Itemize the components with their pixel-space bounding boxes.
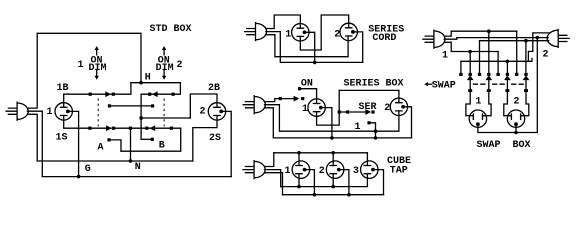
wire plug ground to ground bus [264, 173, 282, 195]
wire plug hot to outlet 1 top [266, 15, 301, 29]
node dot hot col4 [487, 29, 491, 33]
wire outlet1 bottom to series riser [317, 90, 340, 125]
SECTION: STD BOX [6, 24, 231, 178]
outlet J2 [507, 110, 524, 127]
wire bottom bus [281, 174, 368, 187]
outlet J2 [326, 161, 344, 179]
node junction dot on ground bus [374, 136, 378, 140]
plug pin arrow col2 [467, 75, 474, 80]
contact arrow row B2 [150, 125, 156, 131]
node N junction dot [129, 159, 133, 163]
wire neutral bus [265, 105, 399, 132]
wire 2B up-over to outlet 2 [190, 94, 217, 118]
node G junction dot [77, 175, 81, 179]
plug pin arrow col8 [523, 75, 530, 80]
wire column 8 [525, 41, 527, 73]
arrow up (switch 2) [163, 50, 165, 55]
node dot top bus outlet1 [297, 151, 301, 155]
contact arrow switch1 [294, 96, 300, 102]
wire column 3 [479, 41, 481, 73]
wire crossover with terminal squares [110, 105, 153, 107]
wire column 6 [506, 61, 508, 73]
outlet J1 [55, 103, 72, 120]
AC plug P5 left [423, 30, 445, 48]
wire switch2 row A [141, 83, 180, 140]
wire outlet1 pin down [305, 170, 315, 195]
node junction square switch2 feed [338, 110, 341, 113]
node dot bottom bus outlet1 [297, 185, 301, 189]
wire top bus [274, 153, 368, 166]
svg-text:1: 1 [475, 97, 481, 108]
wire outlet1 pin to ground bus [321, 108, 332, 138]
node junction dot pin1 ground [330, 136, 334, 140]
wire plug hot to top bus [264, 153, 273, 167]
svg-text:2: 2 [384, 103, 390, 114]
wire switch 2 row [339, 111, 365, 113]
wire col8 down to outlet2 [521, 80, 529, 116]
svg-text:B: B [159, 141, 165, 152]
wire 2B tap line [141, 117, 190, 119]
svg-text:N: N [135, 162, 141, 173]
wire hot from plug to H drop [27, 33, 141, 108]
node dot top bus outlet2 [331, 151, 335, 155]
wire column 4 [488, 31, 490, 73]
svg-text:1: 1 [302, 104, 308, 115]
svg-text:ON: ON [301, 78, 313, 89]
svg-text:G: G [85, 164, 91, 175]
plug pin arrow col4 [485, 75, 492, 80]
jack square col4 [487, 73, 490, 76]
switch linkage dashed 2 [163, 98, 165, 126]
AC plug P2 [245, 23, 267, 41]
wire plug hot to switch 1 [265, 99, 297, 102]
node dot ground outlet1 [313, 193, 317, 197]
wire N bus [27, 114, 192, 161]
plug pin arrow col6 [504, 75, 511, 80]
wire col6 down to outlet2 [504, 80, 512, 116]
wire column 7 [516, 31, 518, 73]
svg-text:2B: 2B [208, 83, 220, 94]
svg-text:2: 2 [543, 50, 549, 61]
wire terminal A to link [109, 140, 121, 151]
outlet J2 [340, 23, 357, 40]
wire plug neutral to bottom bus [264, 170, 280, 187]
svg-text:3: 3 [353, 166, 359, 177]
svg-text:1: 1 [442, 51, 448, 62]
outlet J1 [308, 99, 325, 116]
svg-text:1: 1 [78, 60, 84, 71]
node dot bottom bus outlet2 [331, 185, 335, 189]
contact square switch2 blade end [371, 110, 374, 113]
wire outlet3 pin down [373, 170, 384, 195]
wire 1B to switch row A [64, 83, 131, 108]
contact square row B2 left [145, 127, 148, 130]
wire terminal B from switch2 [141, 138, 152, 140]
svg-text:1: 1 [285, 166, 291, 177]
contact arrow switch2 [365, 109, 371, 115]
contact square row B left [88, 127, 91, 130]
wire col2 down to outlet1 [466, 80, 473, 116]
wire neutral tie line plugs 1-2 [444, 38, 548, 40]
wire G bus [42, 176, 231, 178]
wire P1 hot to columns 4 and 7 [444, 31, 517, 36]
node junction dot 2B tap [140, 116, 143, 119]
svg-text:A: A [98, 142, 104, 153]
wire outlet2 pin down [339, 170, 349, 195]
svg-text:2: 2 [200, 107, 206, 118]
node H junction dot [139, 81, 143, 85]
jack square col5 [496, 73, 499, 76]
wire P1 ground to columns 2 and 5 [444, 42, 498, 51]
outlet J3 [361, 161, 379, 179]
svg-text:H: H [145, 72, 151, 83]
wire series link outlet1 bottom to outlet2 top [300, 15, 348, 50]
outlet J2 [390, 98, 407, 115]
contact square switch1 feed [279, 97, 282, 100]
wire ground bus [265, 108, 412, 138]
cord square col2 [468, 89, 472, 92]
wire outlet1 pin to G [68, 111, 79, 176]
terminal square ON contact [298, 87, 301, 90]
wire outlet2 pin down [353, 32, 363, 63]
jack square col6 [506, 73, 509, 76]
AC plug P3 [243, 96, 265, 114]
svg-text:SWAP: SWAP [432, 81, 456, 92]
node dot neutral drop [536, 36, 540, 40]
svg-text:1: 1 [47, 107, 53, 118]
arrow down (switch 2) [163, 70, 165, 76]
outlet J1 [292, 24, 309, 41]
node dot q3 col8 [524, 39, 528, 43]
svg-text:2: 2 [514, 97, 520, 108]
jack square col2 [469, 73, 472, 76]
svg-text:CORD: CORD [372, 33, 396, 44]
contact square switch1 blade end [301, 97, 304, 100]
node junction square on neutral bus [374, 130, 377, 133]
wire H bus [131, 82, 181, 84]
wire neutral drop to outlets [536, 38, 538, 133]
AC plug P6 right [547, 29, 569, 47]
arrow down (switch 1) [96, 70, 98, 76]
svg-text:2: 2 [334, 29, 340, 40]
svg-text:1B: 1B [57, 83, 69, 94]
wire P2 ground to columns 8 and 3 [480, 40, 549, 42]
contact square row B junction [129, 127, 132, 130]
contact arrow row A2 [152, 91, 158, 97]
cord square col8 [524, 89, 528, 92]
contact square row B2 right [170, 127, 173, 130]
jack square col8 [524, 73, 527, 76]
cord square col6 [505, 89, 509, 92]
wire column 5 [497, 52, 499, 73]
svg-text:1S: 1S [56, 132, 68, 143]
wire outlet1 top stub [298, 153, 300, 166]
svg-text:2: 2 [177, 60, 183, 71]
outlet J2 [208, 103, 225, 120]
wire outlet2 top stub [332, 153, 334, 166]
node dot outlet2 neutral [514, 131, 518, 135]
wire position1 terminal to buses [369, 123, 376, 138]
contact arrow row A [105, 91, 111, 97]
terminal square B [151, 138, 154, 141]
cord square col4 [487, 89, 491, 92]
contact square row A right [112, 93, 115, 96]
AC plug P1 [6, 102, 28, 120]
contact square row A2 right [172, 93, 175, 96]
svg-text:SWAP BOX: SWAP BOX [477, 140, 531, 151]
node junction dot pin1 [313, 61, 317, 65]
wire outlet2 pin to G [221, 111, 231, 176]
contact square switch2 left [346, 110, 349, 113]
node dot q1 col6 [506, 60, 510, 64]
svg-text:SERIES BOX: SERIES BOX [344, 78, 404, 89]
wire ON contact to outlet1 top [301, 89, 317, 104]
outlet J1 [469, 110, 486, 127]
wire P2 hot to columns 6 and 1 [461, 33, 550, 61]
svg-text:SER: SER [359, 102, 377, 113]
wire series link to outlet2 top [339, 90, 399, 102]
dashed swap strip line [474, 83, 524, 85]
node dot ground outlet2 [347, 193, 351, 197]
wire outlet2 pin to ground bus [403, 107, 411, 138]
arrow up (switch 1) [96, 50, 98, 55]
SECTION: SERIES BOX [243, 78, 411, 139]
wire outlet1 bottom stub [298, 174, 300, 187]
wire N stub [130, 128, 132, 161]
wire plug ground to G bus [27, 111, 42, 176]
svg-text:2: 2 [319, 166, 325, 177]
wire column 1 [460, 61, 462, 73]
wire outlet2 bottom stub [332, 174, 334, 187]
svg-text:1: 1 [285, 29, 291, 40]
jack square col7 [515, 73, 518, 76]
wire 1S row B [64, 116, 181, 129]
SECTION: SWAP BOX [423, 29, 569, 151]
node dot ground col2 [468, 50, 472, 54]
wire ground bus [283, 194, 384, 196]
switch linkage dashed 1 [97, 98, 99, 126]
wire outlet neutral return [478, 124, 537, 132]
SECTION: CUBE TAP [243, 151, 411, 197]
terminal square A [107, 138, 110, 141]
wire plug ground rail [266, 35, 349, 57]
label SWAP arrow [426, 83, 432, 85]
wire col4 down to outlet1 [483, 80, 492, 116]
wire plug neutral rail [266, 32, 363, 63]
wire outlet1 pin down [305, 32, 315, 62]
svg-text:2S: 2S [209, 133, 221, 144]
jack square col3 [478, 73, 481, 76]
outlet J1 [292, 161, 310, 179]
svg-text:STD BOX: STD BOX [150, 24, 192, 35]
terminal square position 1 [367, 121, 370, 124]
jack square col1 [459, 73, 462, 76]
contact square row B mid [112, 127, 115, 130]
wire 2S to N [193, 116, 217, 162]
svg-text:TAP: TAP [390, 165, 408, 176]
contact square row A left [89, 93, 92, 96]
contact square row A2 left [148, 93, 151, 96]
wire row B to A-B link [121, 128, 181, 151]
wire column 2 [469, 52, 471, 73]
svg-text:DIM: DIM [89, 63, 107, 74]
SECTION: SERIES CORD [245, 15, 405, 64]
AC plug P4 [243, 161, 265, 179]
contact arrow row B [106, 125, 112, 131]
